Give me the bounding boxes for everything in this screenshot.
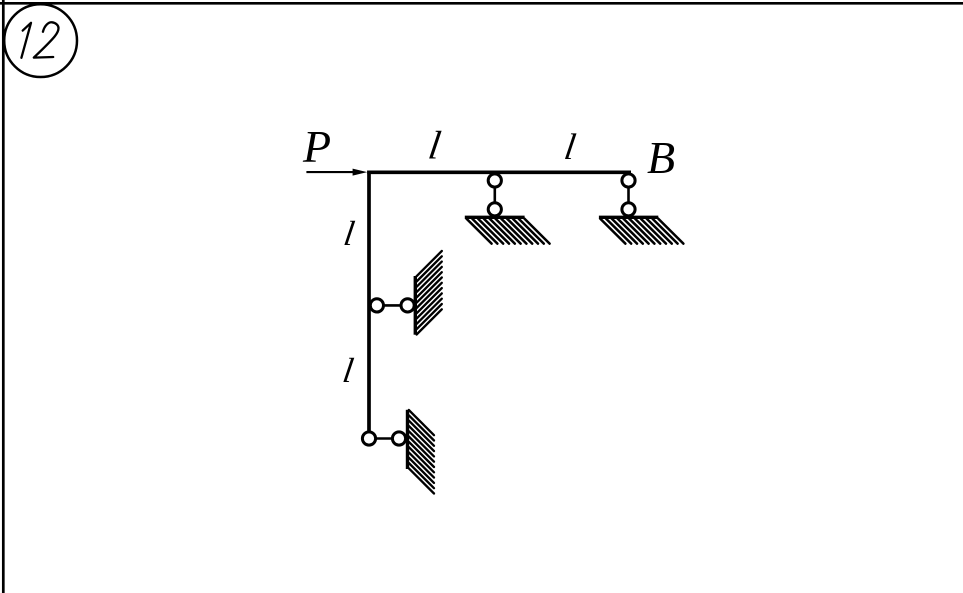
- svg-text:l: l: [426, 123, 444, 168]
- label P: [302, 121, 331, 172]
- wall support 1 wall line: [414, 276, 417, 335]
- label l vertical span 1: [341, 214, 357, 253]
- mid support lower hinge: [488, 203, 501, 216]
- support B pendulum link: [627, 181, 630, 210]
- label l span 1: [426, 123, 444, 168]
- mid support ground hatching: [466, 219, 549, 244]
- wall support 1 link: [377, 304, 408, 307]
- mid support pendulum link: [493, 181, 496, 210]
- problem number circle 12: [4, 4, 77, 77]
- support B upper hinge: [622, 174, 635, 187]
- force P arrow line: [306, 171, 354, 173]
- wall support 2 wall hatching: [409, 410, 434, 494]
- label l vertical span 2: [340, 351, 356, 390]
- svg-text:P: P: [302, 121, 331, 172]
- svg-text:l: l: [340, 351, 356, 390]
- svg-text:l: l: [341, 214, 357, 253]
- wall support 2 link: [369, 437, 399, 440]
- horizontal beam: [367, 170, 631, 174]
- wall support 2 hinge at wall: [392, 432, 405, 445]
- page border top line: [0, 2, 963, 5]
- label B: [647, 132, 675, 183]
- support B ground line: [599, 216, 658, 219]
- mid support ground line: [465, 216, 525, 219]
- mid support upper hinge: [488, 174, 501, 187]
- wall support 2 wall line: [406, 410, 409, 469]
- label l span 2: [562, 127, 579, 168]
- wall support 1 hinge at beam: [370, 299, 383, 312]
- force P arrowhead: [353, 169, 368, 176]
- support B lower hinge: [622, 203, 635, 216]
- wall support 1 wall hatching: [417, 251, 442, 335]
- vertical beam: [367, 171, 371, 432]
- page border left line: [2, 0, 5, 593]
- wall support 2 hinge at beam end: [362, 432, 375, 445]
- support B ground hatching: [600, 219, 683, 244]
- svg-text:B: B: [647, 132, 675, 183]
- wall support 1 hinge at wall: [401, 299, 414, 312]
- svg-text:l: l: [562, 127, 579, 168]
